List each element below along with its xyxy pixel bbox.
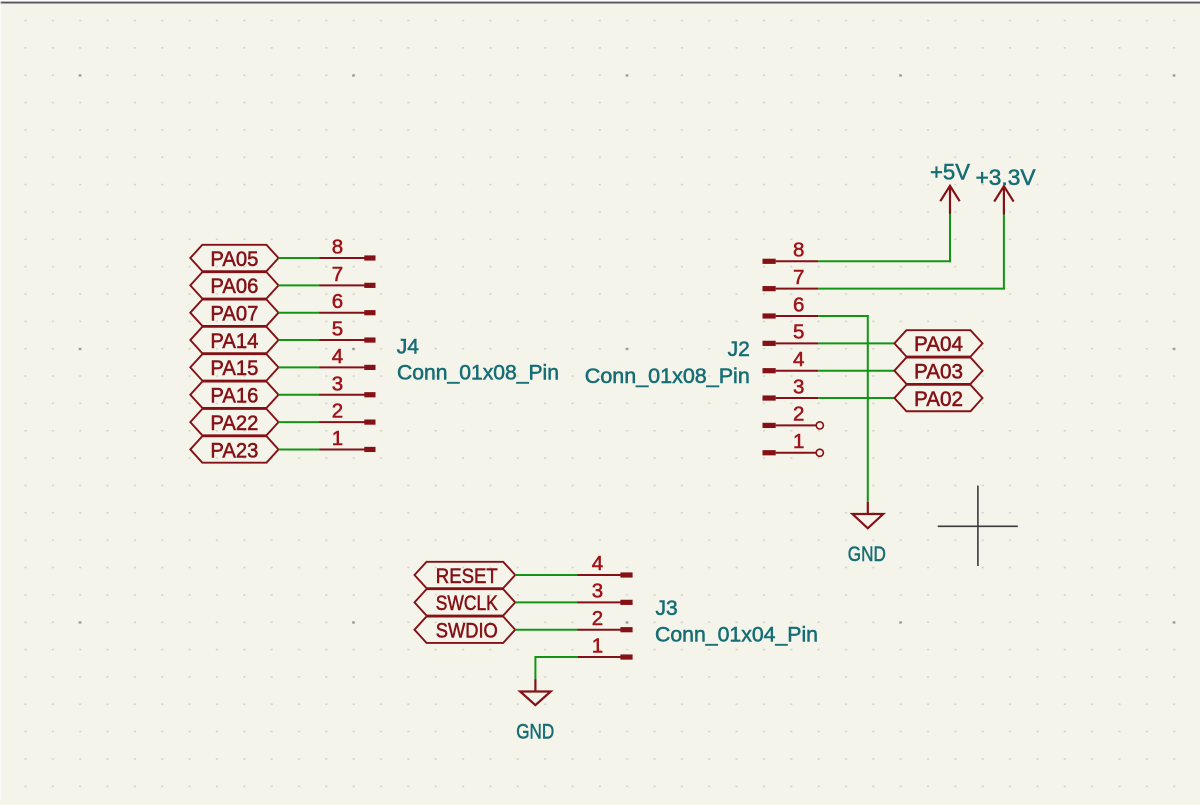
J3 pin number 4 xyxy=(592,552,603,575)
global label PA06 xyxy=(190,272,278,298)
svg-text:Conn_01x08_Pin: Conn_01x08_Pin xyxy=(585,365,750,388)
power symbol +3.3V xyxy=(994,186,1013,214)
wire J2 pin 4 to PA03 xyxy=(818,370,894,372)
wire PA15 to J4 pin 4 xyxy=(279,366,321,368)
global label PA16 xyxy=(190,382,278,408)
crosshair cursor xyxy=(938,486,1018,566)
J2 pin number 6 xyxy=(793,293,804,316)
wire J3 pin 1 to GND xyxy=(535,656,578,679)
power symbol +5V xyxy=(940,186,959,214)
J4 pin number 7 xyxy=(332,263,343,286)
svg-text:Conn_01x08_Pin: Conn_01x08_Pin xyxy=(397,362,559,385)
J4 pin 8 xyxy=(320,255,376,260)
wire PA22 to J4 pin 2 xyxy=(279,421,321,423)
svg-text:3: 3 xyxy=(793,375,804,398)
svg-text:Conn_01x04_Pin: Conn_01x04_Pin xyxy=(655,624,818,647)
svg-text:7: 7 xyxy=(332,263,343,286)
power symbol GND (bottom) xyxy=(520,679,551,705)
svg-text:2: 2 xyxy=(332,400,343,423)
global label PA05 xyxy=(190,245,278,271)
svg-text:RESET: RESET xyxy=(436,565,498,588)
wire J2 pin 7 to +3.3V xyxy=(818,213,1005,289)
svg-text:1: 1 xyxy=(793,430,804,453)
svg-text:2: 2 xyxy=(793,403,804,426)
global label PA04 xyxy=(894,330,982,356)
wire J2 pin 5 to PA04 xyxy=(818,342,894,344)
svg-text:SWDIO: SWDIO xyxy=(436,620,498,643)
J2 pin number 7 xyxy=(793,266,804,289)
wire PA07 to J4 pin 6 xyxy=(279,312,321,314)
svg-text:GND: GND xyxy=(848,542,886,566)
global label PA14 xyxy=(190,327,278,353)
svg-text:PA07: PA07 xyxy=(210,303,258,326)
svg-text:PA05: PA05 xyxy=(210,248,258,271)
J3 pin 3 xyxy=(578,600,633,605)
GND net label (bottom) xyxy=(516,720,554,744)
svg-text:6: 6 xyxy=(332,290,343,313)
svg-text:GND: GND xyxy=(516,720,554,744)
J4 pin number 8 xyxy=(332,236,343,259)
svg-text:+5V: +5V xyxy=(930,159,970,184)
wire PA05 to J4 pin 8 xyxy=(279,257,321,259)
svg-text:2: 2 xyxy=(592,607,603,630)
wire RESET to J3 pin 4 xyxy=(515,574,578,576)
J2 pin 7 xyxy=(763,286,819,291)
svg-text:PA14: PA14 xyxy=(210,330,258,353)
global label PA07 xyxy=(190,300,278,326)
J2 pin 1 xyxy=(763,449,824,456)
J3 pin number 3 xyxy=(592,580,603,603)
power symbol GND (right) xyxy=(852,502,883,528)
global label PA22 xyxy=(190,409,278,435)
J3 pin 4 xyxy=(578,572,633,577)
connector J4 value Conn_01x08_Pin xyxy=(397,362,559,385)
svg-text:PA06: PA06 xyxy=(210,275,258,298)
global label SWDIO xyxy=(415,617,516,643)
svg-text:J4: J4 xyxy=(397,335,420,358)
J3 pin number 2 xyxy=(592,607,603,630)
global label PA15 xyxy=(190,354,278,380)
svg-text:PA16: PA16 xyxy=(210,385,258,408)
J4 pin 6 xyxy=(320,310,376,315)
wire J2 pin 8 to +5V xyxy=(818,213,951,262)
J4 pin 1 xyxy=(320,447,376,452)
svg-text:5: 5 xyxy=(332,318,343,341)
J2 pin 5 xyxy=(763,341,819,346)
J4 pin 7 xyxy=(320,283,376,288)
svg-text:3: 3 xyxy=(332,372,343,395)
wire PA06 to J4 pin 7 xyxy=(279,284,321,286)
wire J2 pin 3 to PA02 xyxy=(818,397,894,399)
svg-text:PA23: PA23 xyxy=(210,439,258,462)
connector J2 reference xyxy=(728,338,750,361)
svg-text:PA15: PA15 xyxy=(210,357,258,380)
svg-text:4: 4 xyxy=(793,348,804,371)
global label PA02 xyxy=(894,385,982,411)
connector J3 reference xyxy=(656,597,678,620)
J4 pin number 4 xyxy=(332,345,343,368)
J2 pin number 1 xyxy=(793,430,804,453)
svg-text:J2: J2 xyxy=(728,338,750,361)
wire PA14 to J4 pin 5 xyxy=(279,339,321,341)
GND net label (right) xyxy=(848,542,886,566)
global label PA23 xyxy=(190,436,278,462)
wire J2 pin 6 to GND xyxy=(818,315,869,502)
J2 pin 8 xyxy=(763,259,819,264)
J4 pin number 5 xyxy=(332,318,343,341)
J4 pin 5 xyxy=(320,337,376,342)
wire PA16 to J4 pin 3 xyxy=(279,394,321,396)
J2 pin 4 xyxy=(763,368,819,373)
wire SWDIO to J3 pin 2 xyxy=(515,629,578,631)
J4 pin number 1 xyxy=(332,427,343,450)
J3 pin 2 xyxy=(578,627,633,632)
J4 pin number 2 xyxy=(332,400,343,423)
connector J3 value Conn_01x04_Pin xyxy=(655,624,818,647)
J3 pin 1 xyxy=(578,654,633,659)
svg-text:8: 8 xyxy=(793,239,804,262)
J2 pin 2 xyxy=(763,422,824,429)
svg-text:5: 5 xyxy=(793,321,804,344)
svg-text:1: 1 xyxy=(332,427,343,450)
global label PA03 xyxy=(894,358,982,384)
J4 pin number 3 xyxy=(332,372,343,395)
svg-text:+3.3V: +3.3V xyxy=(976,165,1036,190)
J4 pin number 6 xyxy=(332,290,343,313)
J4 pin 4 xyxy=(320,365,376,370)
svg-text:J3: J3 xyxy=(656,597,678,620)
svg-text:SWCLK: SWCLK xyxy=(436,592,498,615)
connector J4 reference xyxy=(397,335,420,358)
J3 pin number 1 xyxy=(592,634,603,657)
svg-text:1: 1 xyxy=(592,634,603,657)
J2 pin 6 xyxy=(763,313,819,318)
J2 pin number 8 xyxy=(793,239,804,262)
J4 pin 3 xyxy=(320,392,376,397)
svg-text:8: 8 xyxy=(332,236,343,259)
+5V net label xyxy=(930,159,970,184)
svg-text:4: 4 xyxy=(332,345,343,368)
J2 pin number 5 xyxy=(793,321,804,344)
svg-text:PA22: PA22 xyxy=(210,412,258,435)
svg-text:PA02: PA02 xyxy=(914,388,963,411)
J2 pin number 2 xyxy=(793,403,804,426)
global label RESET xyxy=(415,562,516,588)
wire SWCLK to J3 pin 3 xyxy=(515,601,578,603)
wire PA23 to J4 pin 1 xyxy=(279,448,321,450)
svg-text:4: 4 xyxy=(592,552,603,575)
svg-text:PA03: PA03 xyxy=(914,361,963,384)
J2 pin 3 xyxy=(763,395,819,400)
svg-text:6: 6 xyxy=(793,293,804,316)
J2 pin number 3 xyxy=(793,375,804,398)
J2 pin number 4 xyxy=(793,348,804,371)
global label SWCLK xyxy=(415,589,516,615)
J4 pin 2 xyxy=(320,420,376,425)
svg-text:PA04: PA04 xyxy=(914,333,963,356)
connector J2 value Conn_01x08_Pin xyxy=(585,365,750,388)
svg-text:7: 7 xyxy=(793,266,804,289)
svg-text:3: 3 xyxy=(592,580,603,603)
+3.3V net label xyxy=(976,165,1036,190)
